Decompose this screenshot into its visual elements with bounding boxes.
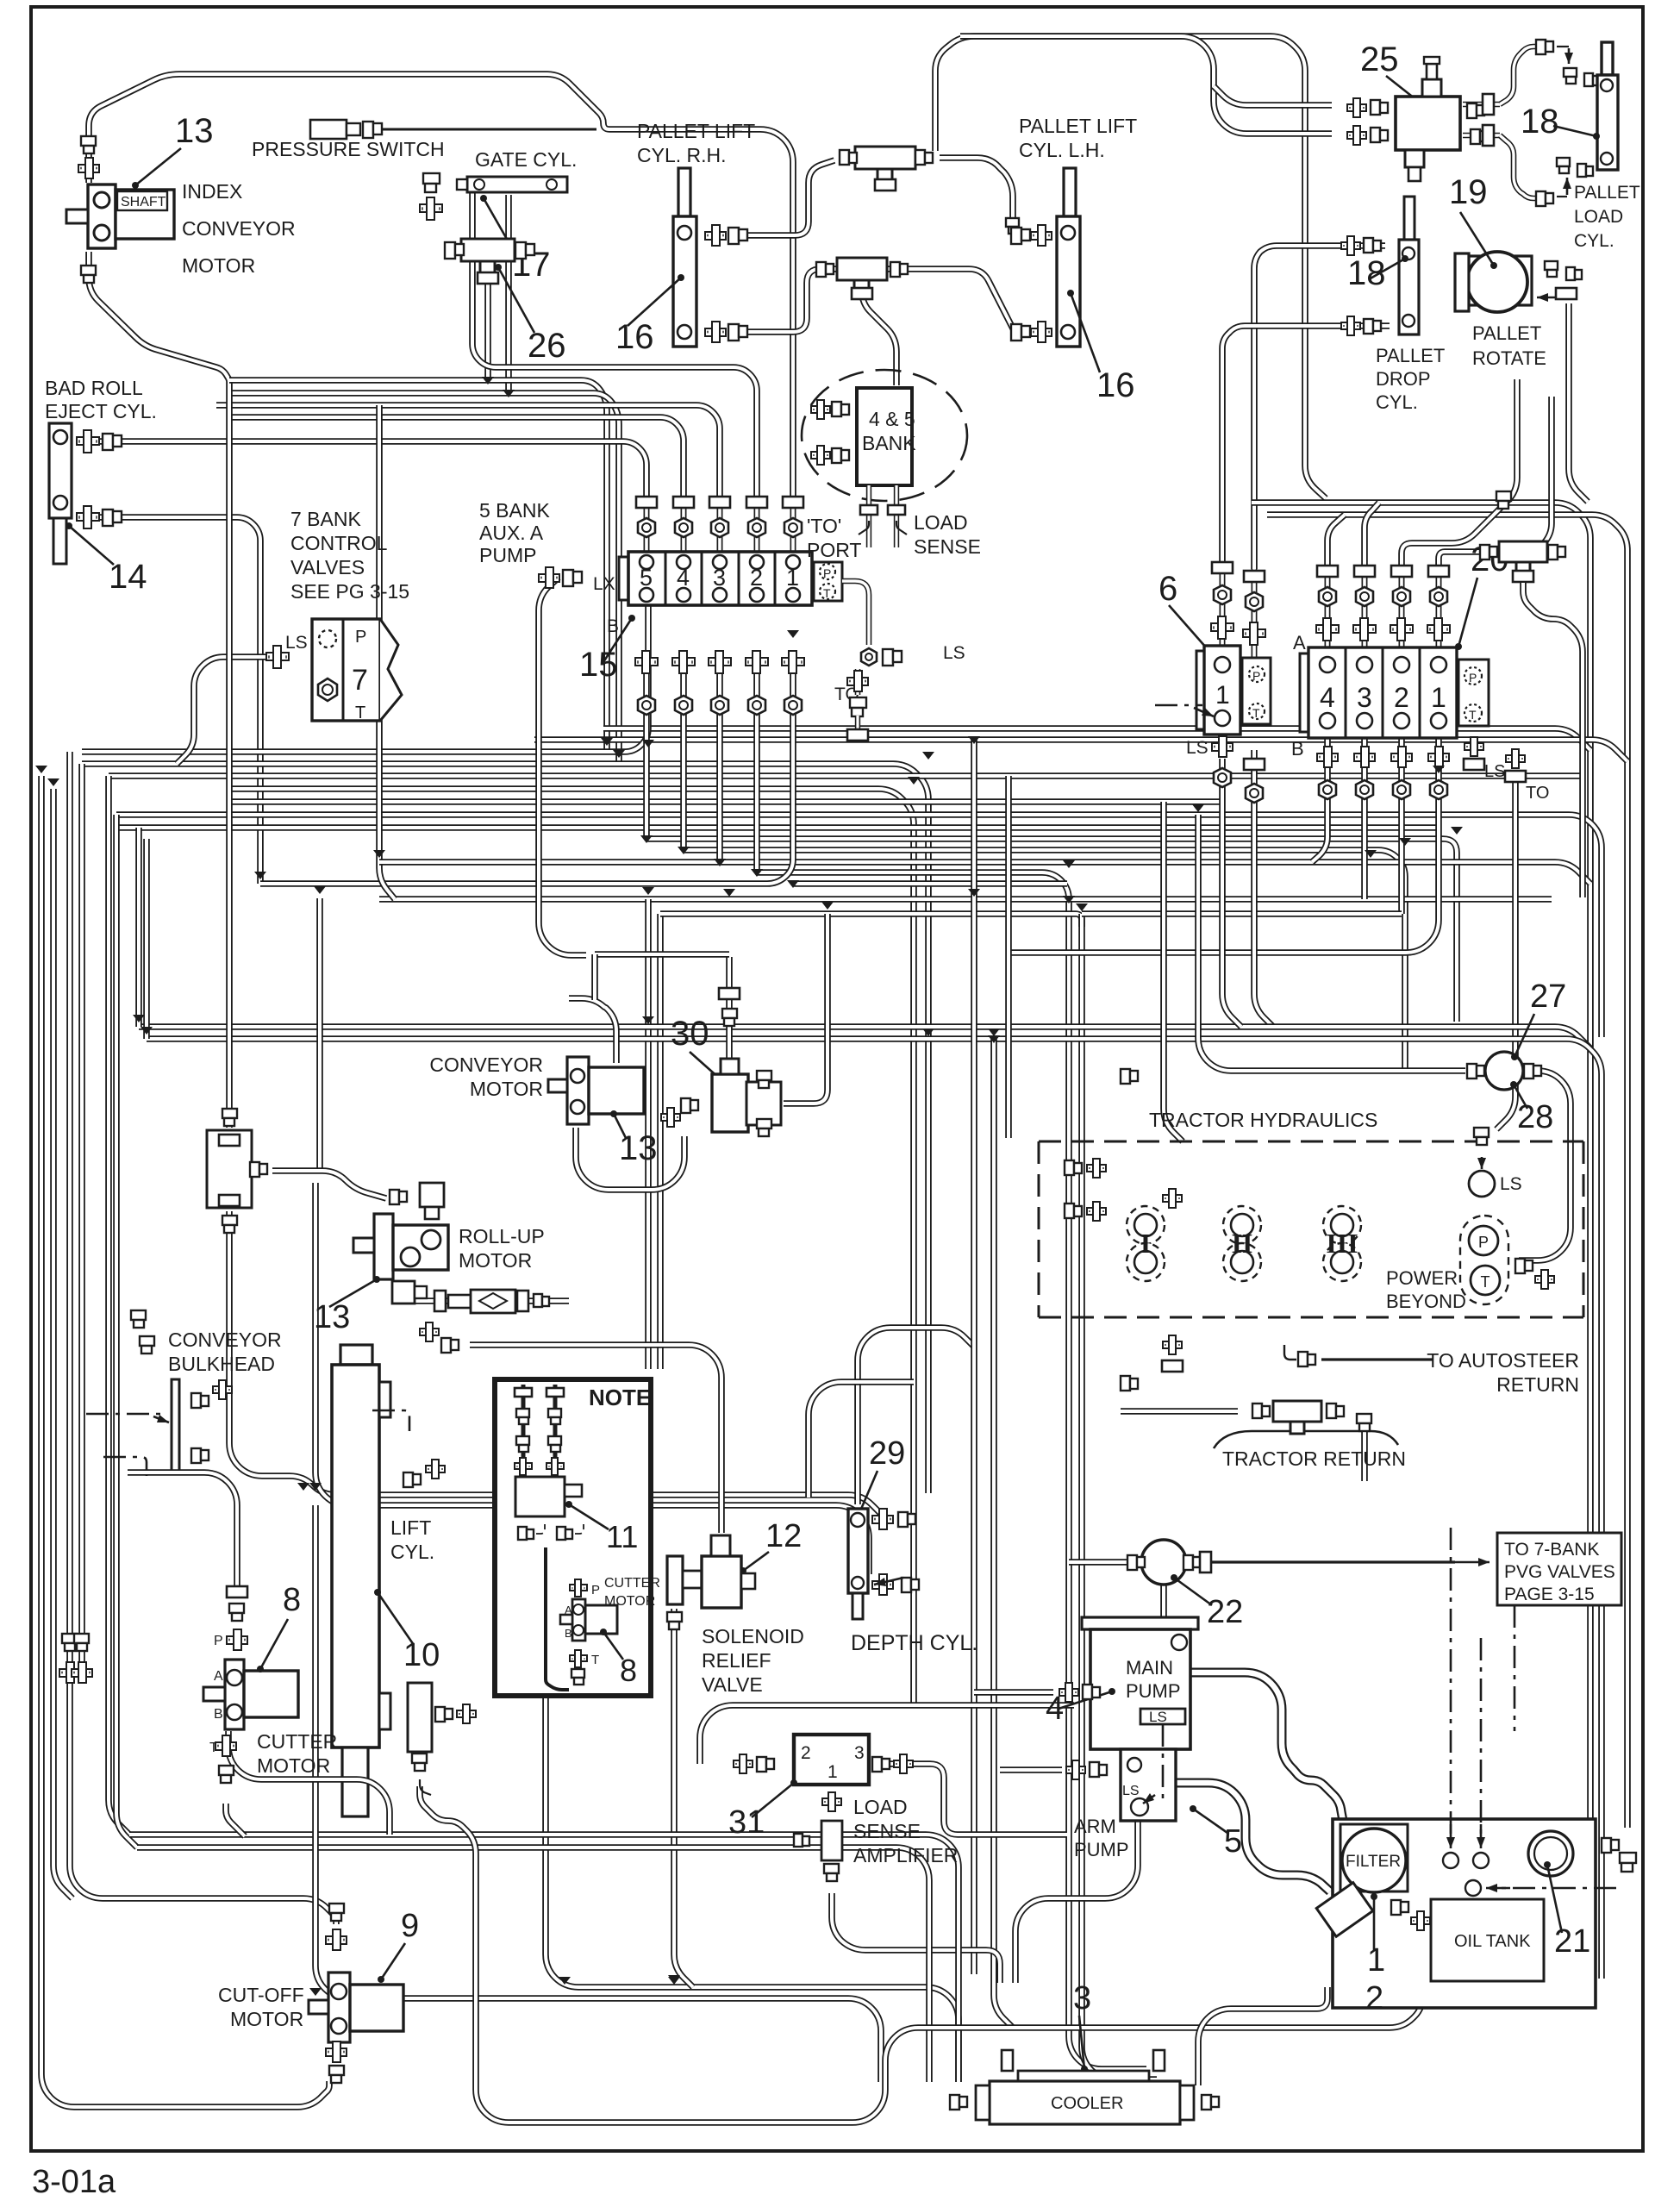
svg-text:FILTER: FILTER (1346, 1853, 1401, 1871)
svg-text:ROLL-UP: ROLL-UP (459, 1225, 545, 1247)
svg-text:16: 16 (1096, 366, 1135, 404)
svg-text:25: 25 (1360, 41, 1399, 78)
svg-text:13: 13 (175, 112, 214, 150)
svg-text:PUMP: PUMP (1074, 1839, 1129, 1860)
svg-text:CUTTER: CUTTER (604, 1576, 660, 1591)
svg-text:LIFT: LIFT (390, 1516, 431, 1539)
svg-text:TO 7-BANK: TO 7-BANK (1504, 1540, 1599, 1560)
svg-text:B: B (1291, 738, 1304, 760)
svg-text:PAGE 3-15: PAGE 3-15 (1504, 1585, 1595, 1604)
svg-text:BULKHEAD: BULKHEAD (168, 1353, 275, 1375)
svg-text:P: P (214, 1634, 223, 1648)
svg-text:MAIN: MAIN (1126, 1657, 1173, 1679)
svg-text:TO AUTOSTEER: TO AUTOSTEER (1427, 1349, 1579, 1372)
svg-text:CUT-OFF: CUT-OFF (218, 1984, 304, 2006)
svg-text:LS: LS (1500, 1174, 1522, 1194)
svg-text:VALVES: VALVES (290, 556, 365, 578)
svg-text:P: P (1252, 669, 1260, 683)
svg-text:LS: LS (1122, 1784, 1140, 1798)
svg-text:PUMP: PUMP (1126, 1680, 1181, 1702)
svg-text:MOTOR: MOTOR (182, 254, 255, 277)
svg-text:CUTTER: CUTTER (257, 1730, 337, 1753)
svg-text:MOTOR: MOTOR (459, 1249, 532, 1272)
svg-text:OIL TANK: OIL TANK (1454, 1932, 1531, 1951)
svg-text:CYL.: CYL. (1574, 231, 1614, 251)
svg-text:2: 2 (750, 565, 763, 591)
svg-text:29: 29 (869, 1435, 905, 1472)
svg-text:5 BANK: 5 BANK (479, 499, 550, 522)
svg-text:4 & 5: 4 & 5 (869, 408, 915, 430)
svg-text:7 BANK: 7 BANK (290, 508, 361, 530)
svg-text:3: 3 (1073, 1980, 1091, 2016)
svg-text:COOLER: COOLER (1051, 2094, 1123, 2113)
svg-text:11: 11 (606, 1519, 638, 1554)
svg-text:LOAD: LOAD (1574, 207, 1623, 227)
svg-text:3: 3 (854, 1743, 865, 1763)
svg-text:MOTOR: MOTOR (470, 1078, 543, 1100)
svg-text:B: B (607, 616, 619, 636)
svg-text:1: 1 (786, 565, 799, 591)
svg-text:T: T (355, 703, 365, 722)
svg-text:VALVE: VALVE (702, 1673, 763, 1696)
svg-text:3: 3 (1357, 682, 1372, 713)
svg-text:LS: LS (1149, 1709, 1167, 1725)
svg-text:B: B (214, 1707, 223, 1722)
svg-text:LOAD: LOAD (853, 1796, 908, 1818)
svg-text:I: I (1140, 1228, 1151, 1259)
svg-text:PUMP: PUMP (479, 544, 536, 566)
svg-text:1: 1 (1367, 1942, 1385, 1979)
svg-text:22: 22 (1207, 1594, 1243, 1630)
svg-text:A: A (214, 1669, 223, 1684)
svg-text:SENSE: SENSE (853, 1820, 921, 1842)
svg-text:CONVEYOR: CONVEYOR (168, 1329, 282, 1351)
svg-text:TRACTOR HYDRAULICS: TRACTOR HYDRAULICS (1149, 1109, 1377, 1131)
svg-text:P: P (823, 566, 831, 580)
svg-text:4: 4 (1320, 682, 1335, 713)
svg-text:21: 21 (1554, 1923, 1590, 1960)
svg-text:5: 5 (640, 565, 653, 591)
svg-text:B: B (565, 1627, 572, 1640)
svg-text:RETURN: RETURN (1496, 1373, 1579, 1396)
svg-text:A: A (565, 1604, 572, 1616)
svg-text:CYL. L.H.: CYL. L.H. (1019, 139, 1105, 161)
svg-text:INDEX: INDEX (182, 180, 242, 203)
svg-text:16: 16 (615, 318, 654, 356)
svg-text:2: 2 (801, 1743, 811, 1763)
svg-text:T: T (591, 1653, 599, 1667)
svg-text:LX: LX (593, 574, 615, 594)
svg-text:EJECT CYL.: EJECT CYL. (45, 400, 157, 422)
svg-text:PRESSURE SWITCH: PRESSURE SWITCH (252, 138, 445, 160)
svg-text:GATE CYL.: GATE CYL. (475, 148, 577, 171)
svg-text:19: 19 (1449, 173, 1488, 211)
svg-text:ARM: ARM (1074, 1816, 1116, 1837)
svg-text:CYL.: CYL. (1376, 391, 1418, 413)
svg-text:RELIEF: RELIEF (702, 1649, 771, 1672)
svg-text:PALLET LIFT: PALLET LIFT (637, 120, 755, 142)
svg-text:TO: TO (1526, 784, 1549, 803)
svg-text:LS: LS (943, 643, 965, 663)
svg-text:7: 7 (352, 664, 368, 697)
svg-text:9: 9 (401, 1908, 419, 1944)
svg-text:T: T (1469, 708, 1477, 722)
svg-text:30: 30 (671, 1015, 709, 1053)
svg-text:T: T (823, 586, 831, 600)
svg-text:2: 2 (1394, 682, 1409, 713)
svg-text:SENSE: SENSE (914, 535, 981, 558)
svg-text:10: 10 (403, 1637, 440, 1673)
svg-text:BEYOND: BEYOND (1386, 1291, 1466, 1312)
svg-text:PALLET: PALLET (1472, 322, 1541, 344)
svg-text:P: P (1478, 1234, 1489, 1251)
svg-text:LS: LS (285, 633, 308, 653)
svg-text:POWER: POWER (1386, 1267, 1458, 1289)
svg-text:LS: LS (1186, 738, 1208, 758)
svg-text:SOLENOID: SOLENOID (702, 1625, 804, 1647)
svg-text:DROP: DROP (1376, 368, 1431, 390)
svg-text:LOAD: LOAD (914, 511, 968, 534)
svg-text:T: T (1252, 706, 1260, 720)
svg-text:BANK: BANK (862, 432, 916, 454)
svg-text:PALLET LIFT: PALLET LIFT (1019, 115, 1137, 137)
svg-text:27: 27 (1530, 978, 1566, 1015)
svg-text:P: P (355, 628, 366, 647)
svg-text:MOTOR: MOTOR (257, 1754, 330, 1777)
svg-text:LS: LS (1484, 762, 1505, 781)
svg-text:15: 15 (579, 646, 618, 684)
svg-text:1: 1 (1215, 681, 1230, 710)
svg-text:CYL.: CYL. (390, 1541, 434, 1563)
svg-text:3-01a: 3-01a (32, 2164, 116, 2200)
svg-text:8: 8 (283, 1582, 301, 1618)
svg-text:'TO': 'TO' (807, 515, 841, 537)
svg-text:AMPLIFIER: AMPLIFIER (853, 1844, 958, 1866)
svg-text:DEPTH CYL.: DEPTH CYL. (851, 1631, 977, 1655)
svg-text:SEE PG 3-15: SEE PG 3-15 (290, 580, 409, 603)
svg-text:II: II (1232, 1228, 1253, 1259)
svg-text:14: 14 (109, 558, 147, 596)
svg-text:MOTOR: MOTOR (230, 2008, 303, 2030)
svg-text:CONVEYOR: CONVEYOR (182, 217, 296, 240)
svg-text:1: 1 (828, 1762, 838, 1782)
svg-text:A: A (1293, 632, 1306, 653)
svg-text:ROTATE: ROTATE (1472, 347, 1546, 369)
svg-text:2: 2 (1365, 1980, 1383, 2016)
svg-text:P: P (591, 1583, 600, 1597)
svg-text:P: P (1469, 671, 1477, 685)
svg-text:PVG VALVES: PVG VALVES (1504, 1562, 1615, 1582)
svg-text:4: 4 (677, 565, 690, 591)
svg-text:5: 5 (1224, 1823, 1242, 1860)
svg-text:PALLET: PALLET (1574, 183, 1640, 203)
svg-text:AUX. A: AUX. A (479, 522, 544, 544)
svg-text:PORT: PORT (807, 539, 861, 561)
svg-text:NOTE: NOTE (589, 1385, 651, 1410)
svg-text:SHAFT: SHAFT (121, 195, 166, 209)
svg-text:T: T (1481, 1273, 1490, 1291)
svg-text:TRACTOR RETURN: TRACTOR RETURN (1222, 1447, 1406, 1470)
svg-text:III: III (1326, 1228, 1358, 1259)
svg-text:1: 1 (1431, 682, 1446, 713)
svg-text:CYL. R.H.: CYL. R.H. (637, 144, 727, 166)
svg-text:CONVEYOR: CONVEYOR (429, 1053, 543, 1076)
svg-text:BAD ROLL: BAD ROLL (45, 377, 143, 399)
svg-text:18: 18 (1521, 103, 1559, 141)
svg-text:MOTOR: MOTOR (604, 1594, 655, 1609)
svg-text:PALLET: PALLET (1376, 345, 1445, 366)
svg-text:6: 6 (1159, 570, 1177, 608)
svg-text:12: 12 (765, 1518, 802, 1554)
svg-text:28: 28 (1517, 1099, 1553, 1135)
svg-text:CONTROL: CONTROL (290, 532, 388, 554)
svg-text:3: 3 (713, 565, 726, 591)
